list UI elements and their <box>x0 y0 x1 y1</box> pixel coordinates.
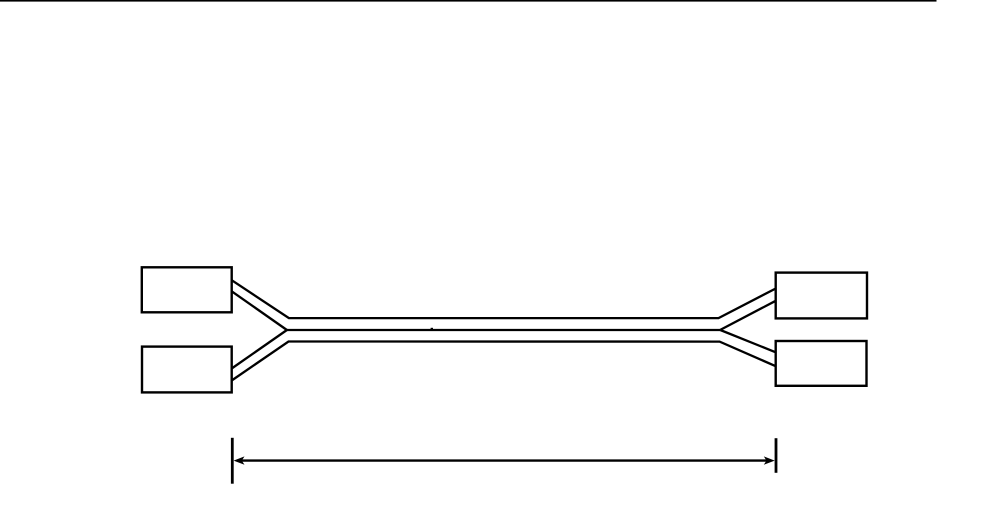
wire W6 inner lower conductor right: right junction to P4 <box>720 330 775 352</box>
wire W7 outer lower conductor: P2 to cable bottom edge to P4 <box>232 342 776 381</box>
wire W2 inner upper conductor: P1 to left junction <box>232 291 287 330</box>
connector P3 (top right rectangle) <box>776 273 867 319</box>
dimension extension tick left <box>231 438 234 484</box>
cable marker nub on center line <box>431 328 433 331</box>
dimension arrowhead right <box>764 456 775 464</box>
connector P1 (top left rectangle) <box>142 267 232 312</box>
connector P2 (bottom left rectangle) <box>142 347 232 393</box>
page header rule <box>0 0 937 2</box>
wire W4 inner upper conductor right: right junction to P3 <box>720 301 775 330</box>
connector P4 (bottom right rectangle) <box>776 341 867 386</box>
dimension line (overall length) <box>241 459 768 461</box>
dimension arrowhead left <box>234 456 245 464</box>
wire W3 cable center line: left junction to right junction <box>287 329 720 331</box>
wire W5 inner lower conductor: P2 to left junction <box>232 330 287 369</box>
wire W1 outer upper conductor: P1 to cable top edge to P3 <box>232 280 776 318</box>
dimension extension tick right <box>775 438 778 473</box>
